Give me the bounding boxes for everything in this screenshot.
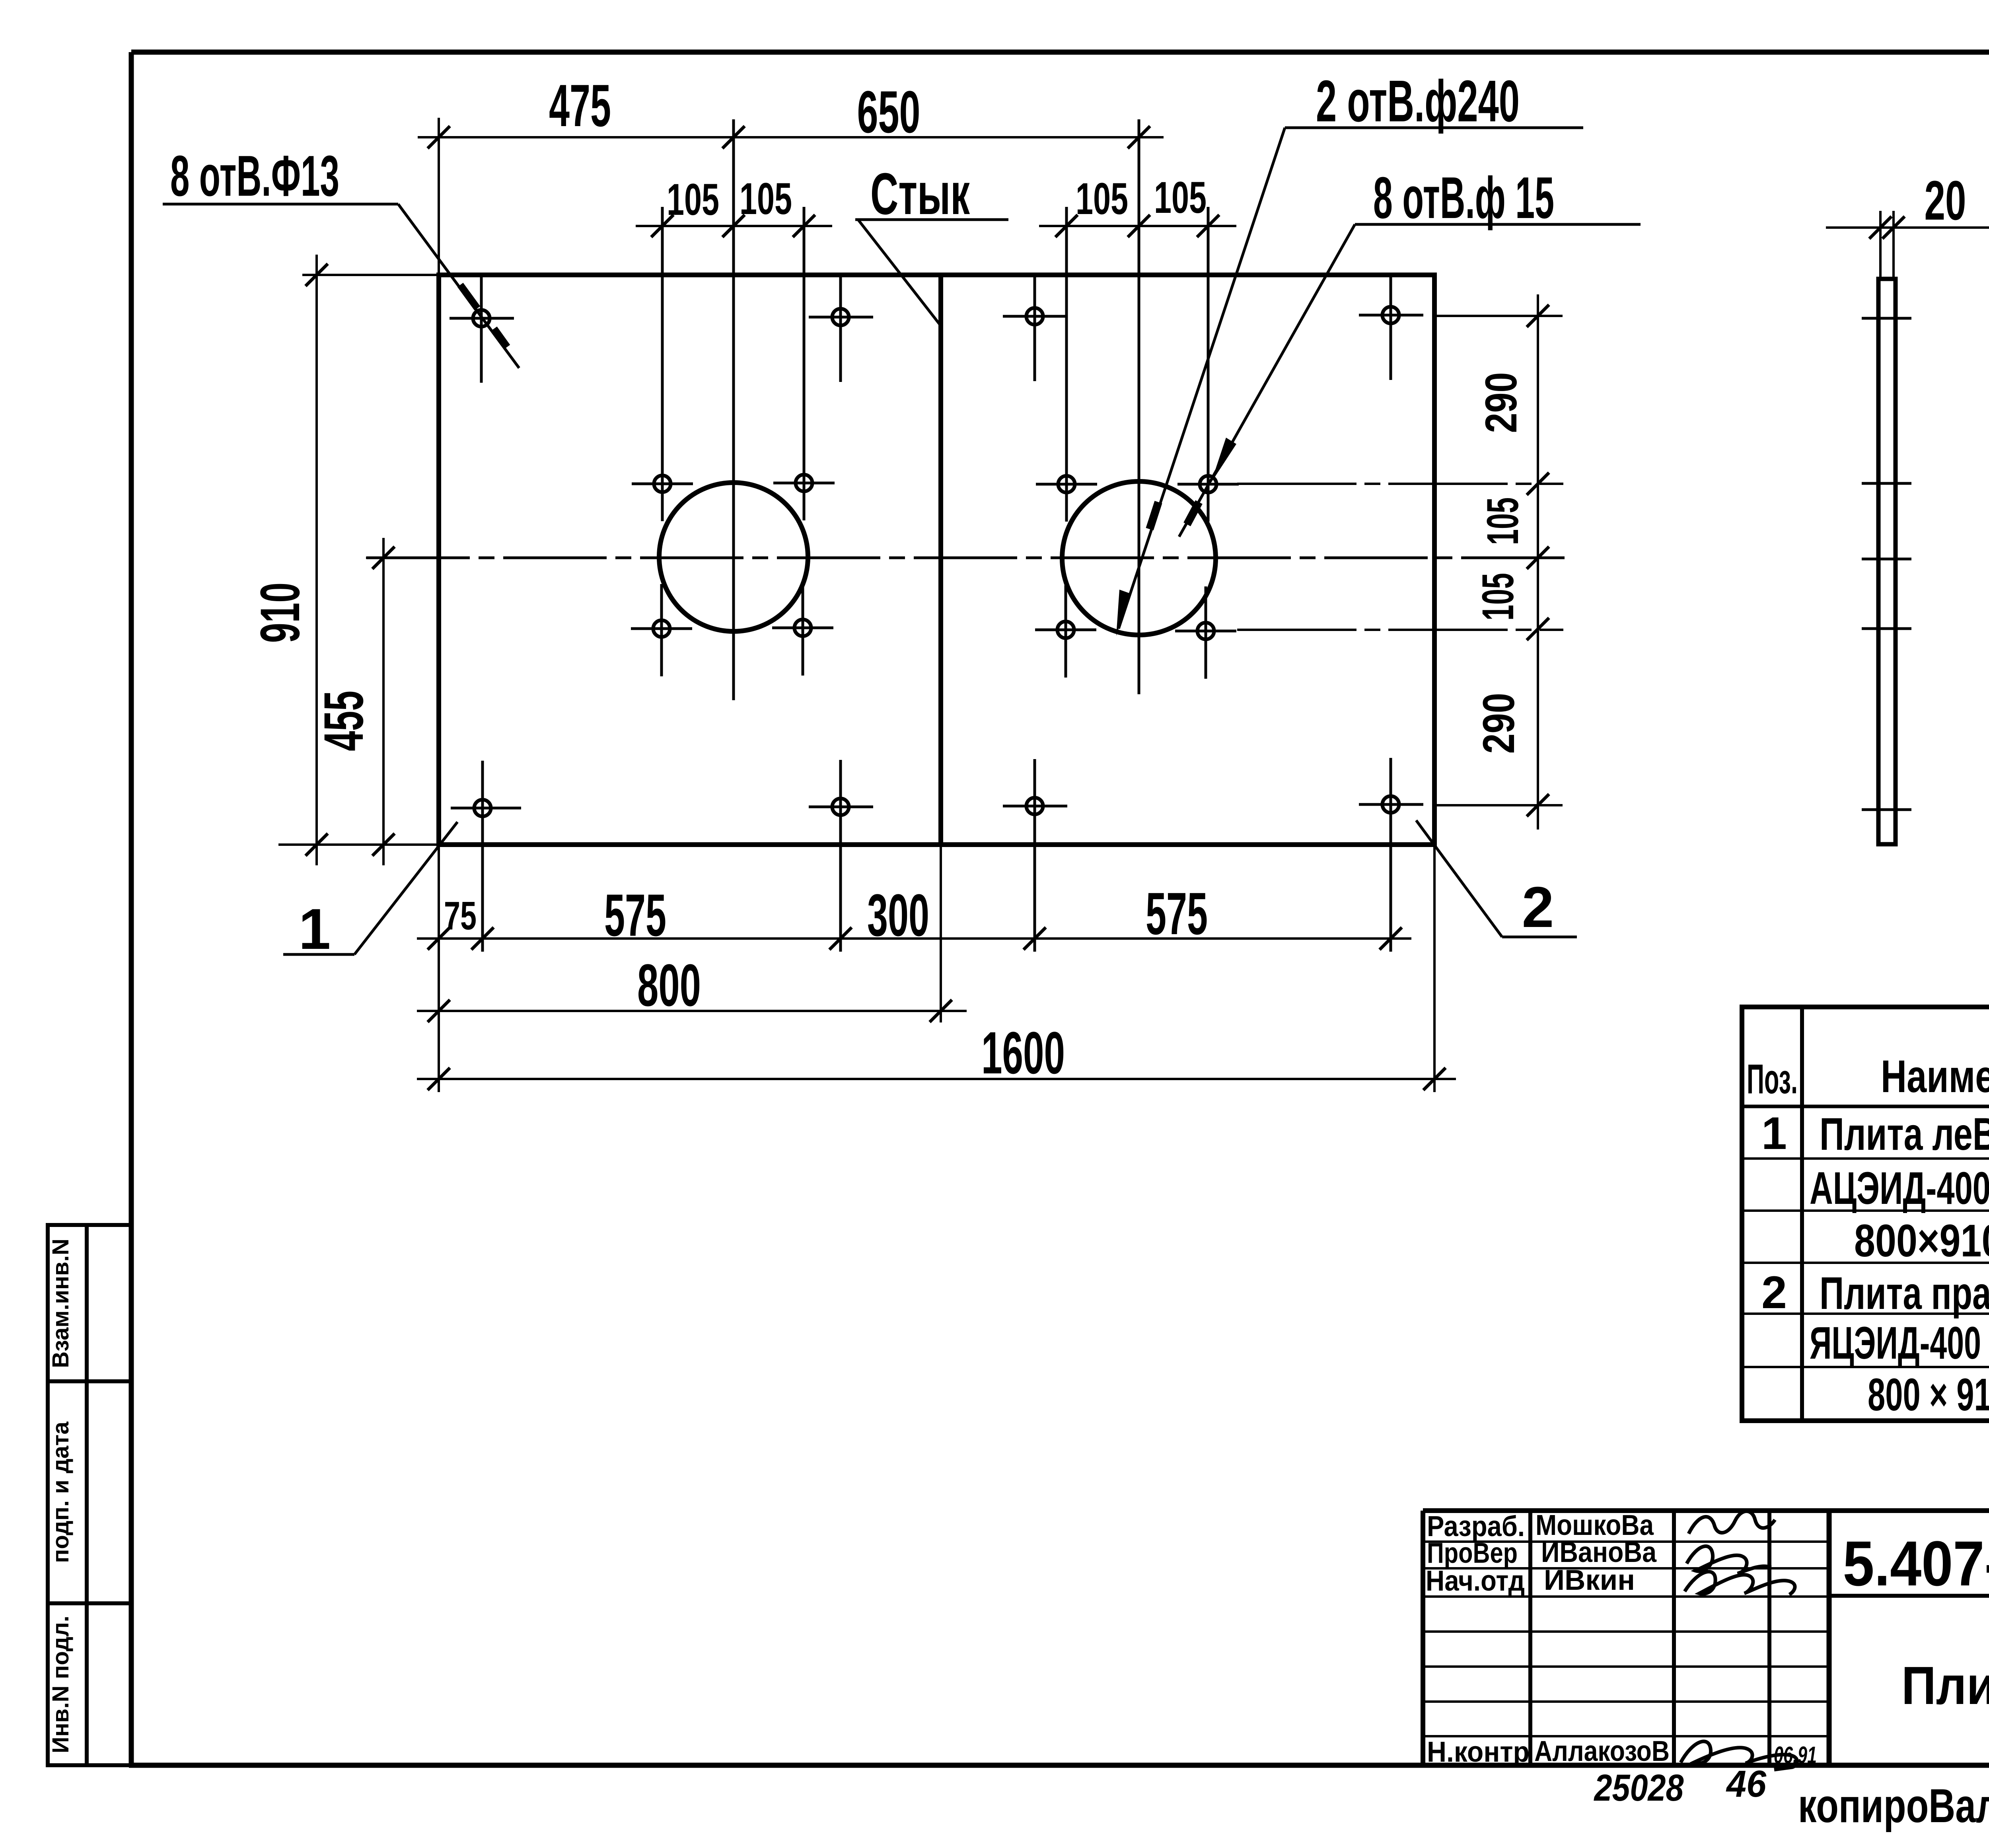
svg-text:5.407-139.1-32: 5.407-139.1-32 — [1843, 1528, 1989, 1599]
table row line 3 — [1742, 1262, 1989, 1264]
part mark 1 leader — [283, 822, 457, 954]
table column line poz — [1800, 1007, 1804, 1421]
svg-text:910: 910 — [249, 582, 311, 643]
title block row lines left part — [1423, 1542, 1829, 1736]
hole f13 top 4 — [1359, 275, 1423, 380]
dimension line 1600 — [417, 1068, 1456, 1090]
svg-text:20: 20 — [1925, 169, 1966, 232]
side view hole row tick 4 — [1862, 808, 1911, 811]
hole f15 upper left of circle1 — [632, 207, 693, 521]
svg-text:АллакозоВ: АллакозоВ — [1534, 1735, 1670, 1767]
svg-text:Взам.инв.N: Взам.инв.N — [48, 1238, 74, 1368]
plate outline front view — [439, 275, 1434, 845]
svg-text:290: 290 — [1476, 372, 1526, 433]
joint line Стык — [938, 275, 943, 845]
svg-text:455: 455 — [312, 691, 375, 751]
hole f13 top 2 — [809, 277, 873, 382]
hole f15 upper right of circle2 — [1177, 207, 1239, 522]
dimension line 800 — [417, 1000, 967, 1022]
table row line 2 — [1742, 1209, 1989, 1212]
svg-text:8 отВ.ф 15: 8 отВ.ф 15 — [1373, 165, 1554, 231]
105 105 dimension left pair — [636, 215, 832, 237]
svg-text:290: 290 — [1474, 693, 1524, 754]
svg-text:105: 105 — [1154, 173, 1207, 222]
left dimension 455 — [366, 538, 437, 865]
circle 2 vertical center line — [1138, 119, 1140, 694]
svg-text:06.91: 06.91 — [1774, 1742, 1817, 1768]
bottom extension line right edge — [1433, 845, 1436, 1092]
svg-text:105: 105 — [1473, 573, 1523, 621]
left dimension 910 — [278, 255, 438, 865]
big hole circle 1 f240 — [659, 483, 808, 631]
hole f15 lower left of circle2 — [1035, 585, 1096, 678]
title block outer lines — [1423, 1511, 1989, 1765]
hole f15 lower left of circle1 — [631, 584, 692, 676]
right dimension chain 290 105 105 290 — [1437, 294, 1563, 830]
center line row lower holes right extension — [1237, 629, 1563, 631]
svg-text:Н.контр: Н.контр — [1427, 1736, 1530, 1768]
hole f13 bottom 1 — [451, 761, 521, 952]
circle 1 vertical center line — [732, 119, 735, 700]
105 105 dimension right pair — [1039, 215, 1236, 237]
signature prover — [1687, 1546, 1771, 1573]
svg-text:копироВал: БаркоВская: копироВал: БаркоВская — [1798, 1779, 1989, 1832]
table row line 1 — [1742, 1157, 1989, 1160]
big hole circle 2 f240 — [1062, 481, 1216, 635]
svg-text:1: 1 — [299, 897, 331, 961]
hole f15 lower right of circle1 — [772, 583, 833, 676]
svg-text:Стык: Стык — [870, 161, 970, 227]
center line row upper holes right extension — [1237, 483, 1563, 485]
svg-text:46: 46 — [1726, 1763, 1767, 1805]
svg-text:8 отВ.Ф13: 8 отВ.Ф13 — [170, 144, 339, 208]
bottom extension line left edge — [438, 845, 440, 1092]
svg-text:подп. и дата: подп. и дата — [48, 1422, 74, 1563]
bottom extension line joint — [940, 845, 942, 1022]
leader line Стык — [855, 220, 1008, 324]
side view hole row tick 1 — [1862, 317, 1911, 320]
svg-text:105: 105 — [667, 175, 719, 224]
leader line 2 otv f240 with arrow — [1116, 128, 1583, 636]
leader line 8 otv f13 — [163, 204, 519, 368]
signature razrab — [1689, 1511, 1775, 1534]
svg-text:Поз.: Поз. — [1747, 1056, 1798, 1102]
hole f13 top 1 — [450, 277, 514, 383]
title block doc number cell bottom — [1829, 1594, 1989, 1598]
svg-text:ПроВер: ПроВер — [1427, 1537, 1518, 1569]
svg-text:Нач.отд: Нач.отд — [1426, 1565, 1525, 1597]
horizontal center axis dash-dot — [366, 557, 1565, 559]
side view hole row tick 3 — [1862, 627, 1911, 630]
top dimension line 475 650 — [418, 118, 1164, 275]
svg-text:1600: 1600 — [981, 1019, 1065, 1086]
signature nach otd — [1685, 1571, 1795, 1595]
left margin strip box — [48, 1225, 131, 1765]
svg-text:800: 800 — [637, 952, 701, 1018]
svg-text:105: 105 — [1076, 174, 1128, 224]
svg-text:АЦЭИД-400ГОСТ4248-78: АЦЭИД-400ГОСТ4248-78 — [1810, 1163, 1989, 1214]
svg-text:800×910×20: 800×910×20 — [1854, 1215, 1989, 1266]
table header underline — [1742, 1105, 1989, 1108]
svg-text:Инв.N подл.: Инв.N подл. — [48, 1616, 74, 1753]
side view profile — [1878, 279, 1896, 844]
svg-text:25028: 25028 — [1594, 1767, 1684, 1809]
svg-text:475: 475 — [549, 72, 611, 139]
bottom dimension line 75 575 300 575 — [417, 927, 1411, 950]
svg-text:Плита леВая: Плита леВая — [1820, 1109, 1989, 1160]
svg-text:2: 2 — [1522, 875, 1554, 939]
svg-text:105: 105 — [740, 174, 792, 224]
table row line 4 — [1742, 1312, 1989, 1315]
hole f15 upper right of circle1 — [773, 207, 835, 520]
signature n kontr — [1681, 1741, 1797, 1770]
hole f13 top 3 — [1003, 276, 1067, 381]
side view dimension 20 — [1826, 211, 1989, 279]
svg-text:Плита праВая: Плита праВая — [1820, 1268, 1989, 1319]
svg-text:НаименоВание: НаименоВание — [1881, 1051, 1989, 1102]
hole f13 bottom 4 — [1359, 758, 1423, 952]
svg-text:105: 105 — [1478, 497, 1528, 545]
side view center row tick — [1862, 558, 1911, 561]
hole f15 upper left of circle2 — [1036, 207, 1097, 522]
svg-text:75: 75 — [444, 894, 477, 938]
svg-text:800 × 910 × 20: 800 × 910 × 20 — [1868, 1369, 1989, 1420]
svg-text:575: 575 — [1146, 880, 1208, 947]
hole f13 bottom 3 — [1003, 759, 1067, 952]
svg-text:300: 300 — [867, 882, 929, 948]
parts table border — [1742, 1007, 1989, 1421]
part mark 2 leader — [1416, 820, 1577, 937]
title block vertical dividers left part — [1530, 1511, 1829, 1765]
svg-text:ИВаноВа: ИВаноВа — [1541, 1536, 1657, 1568]
hole f13 bottom 2 — [809, 760, 873, 952]
svg-text:2 отВ.ф240: 2 отВ.ф240 — [1316, 68, 1520, 134]
svg-text:575: 575 — [604, 882, 666, 948]
table row line 5 — [1742, 1366, 1989, 1368]
svg-text:1: 1 — [1761, 1108, 1787, 1159]
side view hole row tick 2 — [1862, 482, 1911, 485]
svg-text:Плита П7: Плита П7 — [1901, 1655, 1989, 1716]
svg-text:ИВкин: ИВкин — [1544, 1564, 1635, 1596]
hole f15 lower right of circle2 — [1175, 586, 1236, 679]
leader line 8 otv f15 with arrow — [1179, 224, 1641, 537]
svg-text:ЯЦЭИД-400 ГОСТ 4248-78: ЯЦЭИД-400 ГОСТ 4248-78 — [1810, 1318, 1989, 1369]
svg-text:650: 650 — [857, 78, 921, 145]
svg-text:2: 2 — [1761, 1267, 1787, 1318]
